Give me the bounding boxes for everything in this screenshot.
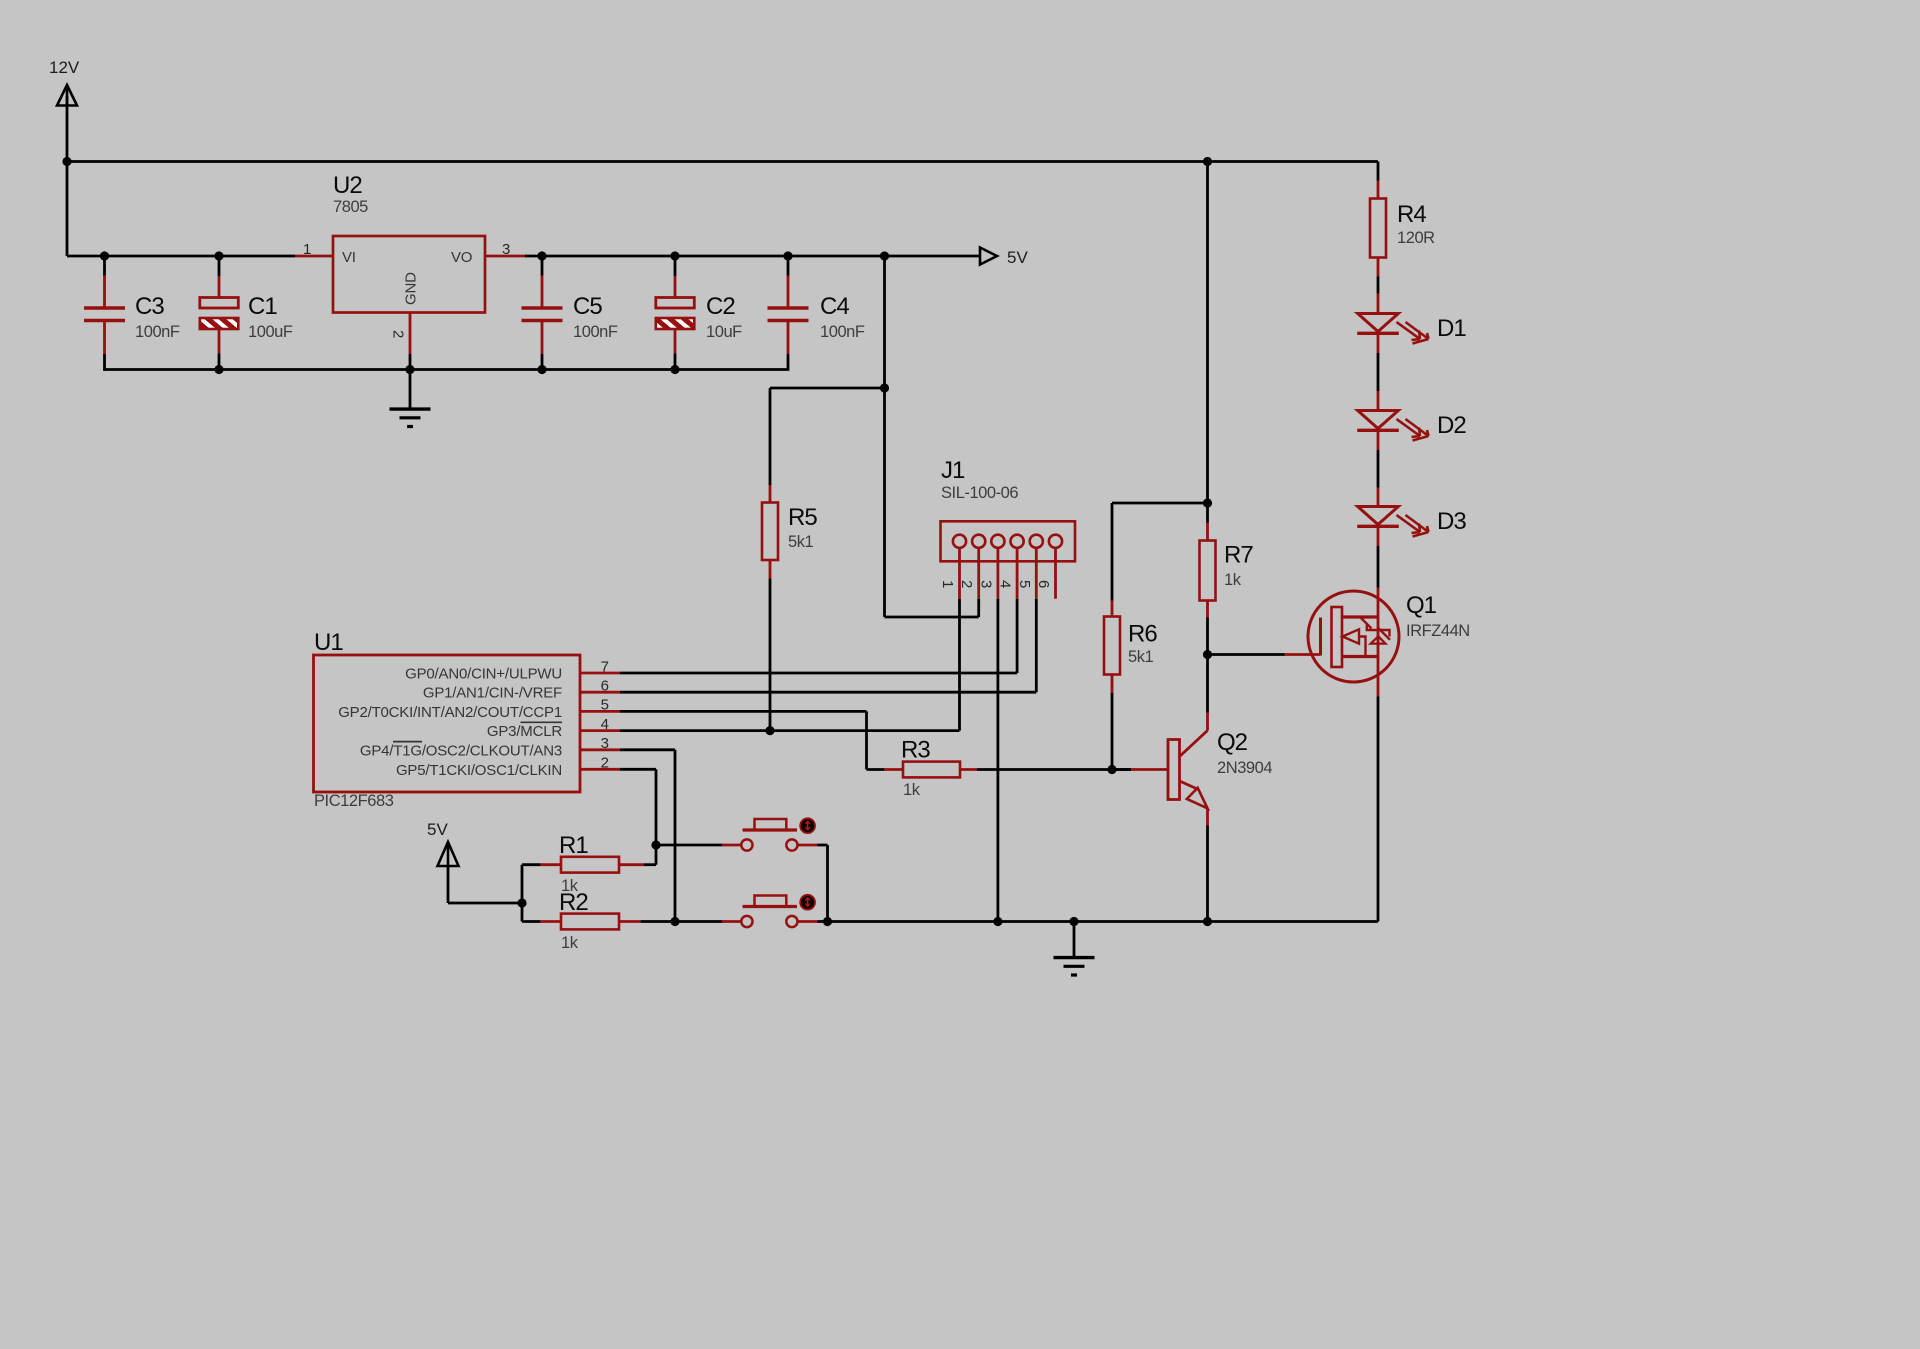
wire 5V stem: [448, 866, 522, 903]
svg-text:D1: D1: [1437, 315, 1466, 342]
svg-text:GP1/AN1/CIN-/VREF: GP1/AN1/CIN-/VREF: [423, 685, 562, 702]
label R1: [559, 832, 588, 859]
wire Q2 base: [1112, 768, 1168, 771]
connector J1 pin 2 lead: [977, 548, 980, 599]
wire GP3 row: [620, 729, 960, 732]
wire Q1 source: [1377, 697, 1380, 922]
MOSFET Q1 drain link: [1342, 615, 1378, 618]
svg-text:GP0/AN0/CIN+/ULPWU: GP0/AN0/CIN+/ULPWU: [405, 666, 562, 683]
connector J1 pin 5 lead: [1035, 548, 1038, 599]
label C1: [248, 293, 277, 320]
svg-text:J1: J1: [941, 457, 965, 484]
wire button2 left: [675, 920, 741, 923]
label D2: [1437, 412, 1466, 439]
label R2: [559, 889, 588, 916]
label D1: [1437, 315, 1466, 342]
wire R3 right lead: [960, 768, 1131, 771]
value SIL-100-06: [941, 484, 1018, 502]
svg-text:GP3/MCLR: GP3/MCLR: [487, 723, 562, 740]
svg-text:5k1: 5k1: [1128, 648, 1154, 666]
value 7805: [333, 198, 368, 216]
wire R2 right lead: [619, 920, 675, 923]
wire R4 drop: [1377, 162, 1380, 199]
power arrow 5V (right): [980, 248, 997, 265]
svg-text:PIC12F683: PIC12F683: [314, 792, 394, 810]
svg-text:GP5/T1CKI/OSC1/CLKIN: GP5/T1CKI/OSC1/CLKIN: [396, 762, 562, 779]
node GP4/R2 row: [670, 917, 679, 926]
svg-text:100nF: 100nF: [135, 323, 180, 341]
connector J1 pin 6 circle: [1049, 535, 1062, 548]
resistor R5: [762, 503, 778, 561]
pin number 7 (U1): [601, 658, 609, 675]
node rail1/U2 GND: [405, 365, 414, 374]
svg-text:C5: C5: [573, 293, 602, 320]
wire D2 to D3: [1377, 431, 1380, 507]
pin name GP2/T0CKI/INT/AN2/COUT/CCP1: [338, 704, 562, 721]
LED D3: [1357, 507, 1428, 537]
pin number 6 (J1, rotated): [1035, 580, 1052, 588]
pin number 3 (U1): [601, 735, 609, 752]
node VI/C1: [214, 251, 223, 260]
wire R6 bottom red lead: [1111, 675, 1114, 694]
node button1/ground rail: [823, 917, 832, 926]
svg-text:120R: 120R: [1397, 229, 1435, 247]
wire R5 top red lead: [769, 485, 772, 503]
svg-text:Q2: Q2: [1217, 729, 1248, 756]
label U2: [333, 172, 362, 199]
svg-text:GP4/T1G/OSC2/CLKOUT/AN3: GP4/T1G/OSC2/CLKOUT/AN3: [360, 742, 562, 759]
value 5k1 (R6): [1128, 648, 1154, 666]
value 120R: [1397, 229, 1435, 247]
wire D1 to D2: [1377, 334, 1380, 411]
label Q2: [1217, 729, 1248, 756]
pin name VI: [342, 249, 356, 266]
value 10uF (C2): [706, 323, 742, 341]
pin name GND (rotated): [403, 272, 420, 305]
wire J1.5 to GP1 row: [1035, 599, 1038, 693]
label C2: [706, 293, 735, 320]
ground symbol (under U2): [390, 409, 431, 426]
transistor Q2 base bar: [1168, 740, 1180, 800]
svg-text:3: 3: [502, 241, 510, 258]
svg-text:D2: D2: [1437, 412, 1466, 439]
wire VI red lead: [295, 255, 334, 258]
svg-text:1k: 1k: [1224, 571, 1242, 589]
svg-text:5k1: 5k1: [788, 533, 814, 551]
svg-text:1: 1: [939, 580, 956, 588]
svg-text:C3: C3: [135, 293, 164, 320]
value 100nF (C3): [135, 323, 180, 341]
U1 pin 7 stub: [580, 672, 620, 675]
pin name GP0/AN0/CIN+/ULPWU: [405, 666, 562, 683]
MOSFET Q1 channel plate: [1332, 607, 1343, 667]
label R5: [788, 504, 817, 531]
pin number 4 (U1): [601, 716, 609, 733]
svg-text:2: 2: [958, 580, 975, 588]
U1 pin 4 stub: [580, 729, 620, 732]
label C5: [573, 293, 602, 320]
svg-text:4: 4: [601, 716, 609, 733]
svg-text:GND: GND: [403, 272, 420, 305]
node VO/branch x884: [880, 251, 889, 260]
svg-text:3: 3: [977, 580, 994, 588]
pin number 2 (U1): [601, 755, 609, 772]
value 5k1 (R5): [788, 533, 814, 551]
value 1k (R7): [1224, 571, 1242, 589]
U1 pin 5 stub: [580, 710, 620, 713]
svg-text:100nF: 100nF: [820, 323, 865, 341]
wire R7 bottom: [1206, 618, 1209, 655]
wire R4 to D1: [1377, 277, 1380, 314]
svg-text:2: 2: [601, 755, 609, 772]
ground symbol (bottom): [1054, 958, 1095, 975]
wire R6 top: [1112, 503, 1208, 601]
wire GP4 row down: [620, 750, 675, 922]
MOSFET Q1 body diode: [1360, 617, 1391, 644]
value PIC12F683: [314, 792, 394, 810]
LED D2: [1357, 411, 1428, 441]
MOSFET Q1 substrate arrow: [1343, 629, 1366, 656]
pin number 4 (J1, rotated): [997, 580, 1014, 588]
svg-text:3: 3: [601, 735, 609, 752]
svg-text:6: 6: [1035, 580, 1052, 588]
svg-text:R1: R1: [559, 832, 588, 859]
pin number 5 (J1, rotated): [1016, 580, 1033, 588]
connector J1 pin 2 circle: [972, 535, 985, 548]
wire 12V stem: [66, 96, 69, 256]
value 1k (R1): [561, 877, 579, 895]
transistor Q2 collector: [1180, 655, 1208, 757]
wire button2 right: [798, 920, 818, 923]
pin number 3 (J1, rotated): [977, 580, 994, 588]
wire VO 5V row: [525, 255, 980, 258]
svg-text:10uF: 10uF: [706, 323, 742, 341]
LED D1: [1357, 314, 1428, 344]
MOSFET Q1 source link: [1342, 655, 1378, 658]
resistor R1: [561, 857, 619, 873]
svg-text:2N3904: 2N3904: [1217, 759, 1272, 777]
node 5V/R1/R2: [517, 898, 526, 907]
label C3: [135, 293, 164, 320]
IC U1 box: [314, 655, 581, 792]
pin number 5 (U1): [601, 697, 609, 714]
svg-text:VI: VI: [342, 249, 356, 266]
wire J1.3 to ground rail: [997, 599, 1000, 922]
resistor R6: [1104, 617, 1120, 675]
svg-text:SIL-100-06: SIL-100-06: [941, 484, 1018, 502]
wire button1 left: [656, 844, 741, 847]
wire R5 top branch: [770, 388, 885, 485]
connector J1 pin 3 lead: [997, 548, 1000, 599]
resistor R7: [1200, 541, 1216, 601]
svg-text:U2: U2: [333, 172, 362, 199]
label U1: [314, 629, 343, 656]
svg-text:GP2/T0CKI/INT/AN2/COUT/CCP1: GP2/T0CKI/INT/AN2/COUT/CCP1: [338, 704, 562, 721]
svg-text:7805: 7805: [333, 198, 368, 216]
svg-text:1k: 1k: [561, 934, 579, 952]
node rail1/C1: [214, 365, 223, 374]
label D3: [1437, 508, 1466, 535]
push button S2: [741, 895, 815, 927]
label R6: [1128, 621, 1157, 648]
overline MCLR: [521, 721, 563, 723]
node 5V branch / R5: [880, 383, 889, 392]
svg-text:4: 4: [997, 580, 1014, 588]
connector J1 pin 3 circle: [991, 535, 1004, 548]
wire R1 left lead: [522, 863, 561, 866]
svg-text:2: 2: [390, 330, 407, 338]
node rail1/C2: [670, 365, 679, 374]
node rail1/C5: [537, 365, 546, 374]
wire R2 left lead: [522, 920, 561, 923]
resistor R4: [1370, 199, 1386, 258]
pin number 2 (J1, rotated): [958, 580, 975, 588]
node rail2/Q2 emitter: [1203, 917, 1212, 926]
push button S1: [741, 818, 815, 850]
svg-text:5V: 5V: [427, 820, 448, 839]
pin name GP3/MCLR: [487, 723, 562, 740]
pin name GP4/T1G/OSC2/CLKOUT/AN3: [360, 742, 562, 759]
node R3/R6/Q2 base: [1107, 765, 1116, 774]
label Q1: [1406, 592, 1437, 619]
label R7: [1224, 542, 1253, 569]
svg-text:R5: R5: [788, 504, 817, 531]
svg-text:VO: VO: [451, 249, 472, 266]
wire GP2 row to R3: [620, 711, 884, 769]
wire R5 bottom red lead: [769, 560, 772, 579]
svg-text:D3: D3: [1437, 508, 1466, 535]
net label 5V (left): [427, 820, 448, 839]
wire ground rail 1: [103, 368, 788, 371]
wire GP1 row: [620, 691, 1036, 694]
capacitor C3: [84, 256, 125, 371]
svg-text:R3: R3: [901, 737, 930, 764]
wire GP5 row down: [620, 769, 656, 864]
svg-text:R2: R2: [559, 889, 588, 916]
U1 pin 3 stub: [580, 748, 620, 751]
U1 pin 2 stub: [580, 768, 620, 771]
MOSFET Q1 gate bar: [1319, 618, 1322, 656]
svg-text:7: 7: [601, 658, 609, 675]
wire VI row: [67, 255, 295, 258]
value 2N3904: [1217, 759, 1272, 777]
node VO/C5: [537, 251, 546, 260]
wire R1-R2 left link: [521, 865, 524, 922]
svg-text:6: 6: [601, 678, 609, 695]
wire 5V branch corner to J1 pin2: [885, 599, 979, 617]
svg-text:Q1: Q1: [1406, 592, 1437, 619]
connector J1 box: [941, 521, 1076, 561]
svg-text:100nF: 100nF: [573, 323, 618, 341]
capacitor C1 (polarized): [200, 256, 239, 371]
svg-text:1k: 1k: [903, 781, 921, 799]
svg-text:C4: C4: [820, 293, 849, 320]
wire button1 right: [798, 845, 828, 922]
label J1: [941, 457, 965, 484]
wire GP0 row: [620, 672, 1017, 675]
resistor R2: [561, 914, 619, 930]
wire R3 left red lead: [884, 768, 903, 771]
net label 5V: [1007, 248, 1028, 267]
svg-text:R7: R7: [1224, 542, 1253, 569]
resistor R3: [903, 762, 960, 778]
pin name GP5/T1CKI/OSC1/CLKIN: [396, 762, 562, 779]
wire R7 column from rail: [1206, 162, 1209, 523]
connector J1 pin 1 lead: [958, 548, 961, 599]
pin number 3 (U2 VO): [502, 241, 510, 258]
voltage regulator U2 box: [333, 236, 485, 313]
wire U2 GND pin black: [409, 354, 412, 408]
node 12V/R7 column: [1203, 157, 1212, 166]
wire R7 bottom red lead: [1206, 601, 1209, 618]
value 100nF (C4): [820, 323, 865, 341]
power arrow 12V: [57, 85, 77, 106]
node gate/R7/Q2 collector: [1203, 650, 1212, 659]
svg-text:5: 5: [1016, 580, 1033, 588]
wire U2 GND pin red: [409, 313, 412, 355]
pin name VO: [451, 249, 472, 266]
wire R4 bottom red lead: [1377, 258, 1380, 277]
connector J1 pin 1 circle: [953, 535, 966, 548]
label C4: [820, 293, 849, 320]
capacitor C5: [522, 256, 563, 371]
node R5/GP3 row: [765, 726, 774, 735]
node R7/R6 wire: [1203, 498, 1212, 507]
MOSFET Q1 internal column: [1377, 615, 1380, 697]
pin number 1 (U2 VI): [303, 241, 311, 258]
value 100uF (C1): [248, 323, 293, 341]
wire D3 to Q1 drain: [1377, 527, 1380, 615]
wire top 12V rail: [67, 160, 1378, 163]
wire ground stem: [1073, 922, 1076, 957]
value 1k (R3): [903, 781, 921, 799]
value 1k (R2): [561, 934, 579, 952]
svg-text:12V: 12V: [49, 58, 80, 77]
svg-text:C1: C1: [248, 293, 277, 320]
wire J1.1 to GP3 row: [958, 599, 961, 731]
transistor Q2 emitter: [1180, 781, 1208, 922]
node VO/C4: [783, 251, 792, 260]
label R3: [901, 737, 930, 764]
U1 pin 6 stub: [580, 691, 620, 694]
net label 12V: [49, 58, 80, 77]
svg-text:R6: R6: [1128, 621, 1157, 648]
wire 5V branch down: [883, 256, 886, 617]
overline T1G: [393, 741, 422, 743]
MOSFET Q1 circle: [1308, 591, 1399, 682]
label R4: [1397, 201, 1426, 228]
pin number 1 (J1, rotated): [939, 580, 956, 588]
node rail2/J1.3: [993, 917, 1002, 926]
pin number 2 (U2 GND, rotated): [390, 330, 407, 338]
svg-text:5: 5: [601, 697, 609, 714]
connector J1 pin 4 lead: [1016, 548, 1019, 599]
wire R6 top red lead: [1111, 601, 1114, 617]
svg-text:IRFZ44N: IRFZ44N: [1406, 622, 1470, 640]
node rail2/ground symbol: [1069, 917, 1078, 926]
wire R7 top red lead: [1206, 523, 1209, 541]
node 12V rail tee: [62, 157, 71, 166]
value 100nF (C5): [573, 323, 618, 341]
wire R1 right lead: [619, 863, 656, 866]
connector J1 pin 5 circle: [1030, 535, 1043, 548]
svg-text:C2: C2: [706, 293, 735, 320]
node GP5/button1 row: [651, 840, 660, 849]
svg-text:1: 1: [303, 241, 311, 258]
node VO/C2: [670, 251, 679, 260]
wire R6 bottom: [1111, 693, 1114, 770]
pin number 6 (U1): [601, 678, 609, 695]
wire ground rail 2: [818, 920, 1379, 923]
wire VO red lead: [485, 255, 525, 258]
capacitor C4: [768, 256, 809, 371]
wire R5 bottom: [769, 579, 772, 731]
wire gate row: [1208, 653, 1321, 656]
value IRFZ44N: [1406, 622, 1470, 640]
node VI/C3: [100, 251, 109, 260]
svg-text:5V: 5V: [1007, 248, 1028, 267]
wire J1.4 to GP0 row: [1016, 599, 1019, 673]
svg-text:100uF: 100uF: [248, 323, 293, 341]
connector J1 pin 6 lead: [1054, 548, 1057, 599]
pin name GP1/AN1/CIN-/VREF: [423, 685, 562, 702]
svg-text:R4: R4: [1397, 201, 1426, 228]
connector J1 pin 4 circle: [1011, 535, 1024, 548]
capacitor C2 (polarized): [656, 256, 695, 371]
svg-text:U1: U1: [314, 629, 343, 656]
power arrow 5V (left): [438, 842, 459, 866]
